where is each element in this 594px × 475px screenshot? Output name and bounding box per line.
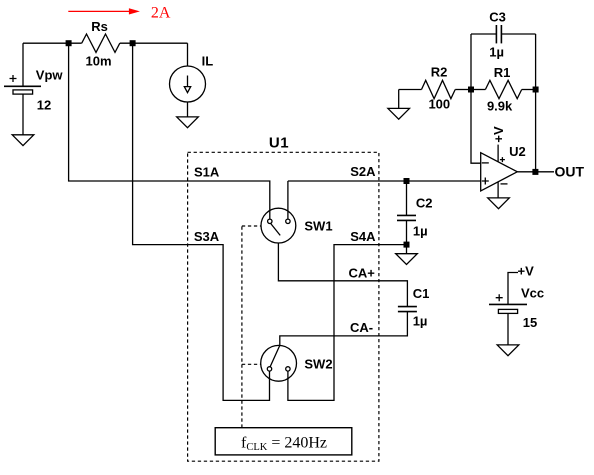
svg-text:R1: R1 bbox=[494, 65, 511, 80]
svg-text:U2: U2 bbox=[509, 144, 526, 159]
svg-text:+V: +V bbox=[491, 126, 506, 143]
svg-text:S1A: S1A bbox=[194, 165, 220, 180]
switch SW1 bbox=[261, 181, 296, 243]
svg-text:+V: +V bbox=[518, 264, 535, 279]
node S2A junction bbox=[404, 178, 410, 184]
battery Vcc bbox=[489, 273, 527, 345]
wire CA- run bbox=[280, 312, 408, 346]
resistor R2 bbox=[399, 80, 471, 108]
node junction R1 left bbox=[468, 87, 474, 93]
op-amp U2 bbox=[481, 145, 518, 198]
wire S2A run bbox=[288, 180, 481, 182]
node junction R1 right bbox=[533, 87, 539, 93]
switch SW2 bbox=[261, 345, 297, 381]
svg-text:C3: C3 bbox=[489, 10, 506, 25]
node output junction bbox=[532, 169, 538, 175]
svg-text:Vpw: Vpw bbox=[36, 67, 64, 82]
svg-text:1µ: 1µ bbox=[413, 224, 428, 239]
capacitor C3 bbox=[471, 25, 536, 43]
svg-text:Vcc: Vcc bbox=[521, 286, 544, 301]
svg-text:CA+: CA+ bbox=[349, 265, 376, 280]
wire S1A run bbox=[69, 43, 270, 219]
fCLK box bbox=[215, 428, 352, 455]
wire output bbox=[517, 171, 554, 173]
svg-text:Rs: Rs bbox=[91, 19, 108, 34]
clock dashed control lines bbox=[241, 226, 243, 428]
current arrow (red) bbox=[68, 8, 140, 14]
resistor Rs bbox=[82, 34, 120, 52]
svg-text:S2A: S2A bbox=[350, 164, 376, 179]
svg-text:IL: IL bbox=[202, 53, 214, 68]
svg-text:S4A: S4A bbox=[350, 229, 376, 244]
svg-text:100: 100 bbox=[428, 97, 450, 112]
svg-text:2A: 2A bbox=[151, 5, 171, 22]
wire S4A run bbox=[288, 245, 407, 401]
node junction right of Rs bbox=[130, 40, 136, 46]
wire CA+ run bbox=[278, 243, 407, 307]
svg-text:U1: U1 bbox=[269, 134, 289, 151]
wire feedback left vertical bbox=[471, 34, 481, 163]
svg-text:9.9k: 9.9k bbox=[487, 98, 513, 113]
svg-text:1µ: 1µ bbox=[489, 45, 504, 60]
wire feedback right vertical bbox=[535, 34, 537, 172]
wire top rail bbox=[23, 42, 82, 44]
svg-text:SW2: SW2 bbox=[304, 357, 332, 372]
wire S3A run bbox=[133, 43, 270, 400]
battery Vpw bbox=[4, 43, 41, 135]
resistor R1 bbox=[471, 80, 536, 98]
capacitor C1 bbox=[398, 307, 417, 312]
ground (R2) bbox=[388, 108, 410, 119]
svg-text:R2: R2 bbox=[431, 65, 448, 80]
ground (Vpw) bbox=[12, 135, 34, 146]
svg-text:12: 12 bbox=[37, 97, 51, 112]
svg-text:C1: C1 bbox=[413, 286, 430, 301]
svg-text:CA-: CA- bbox=[350, 320, 373, 335]
svg-text:15: 15 bbox=[523, 315, 537, 330]
svg-text:1µ: 1µ bbox=[413, 313, 428, 328]
capacitor C2 bbox=[397, 181, 416, 245]
node S4A junction bbox=[404, 242, 410, 248]
current source IL bbox=[170, 43, 206, 117]
svg-text:OUT: OUT bbox=[555, 164, 585, 180]
wire top rail right bbox=[120, 42, 188, 44]
svg-text:C2: C2 bbox=[416, 196, 433, 211]
svg-text:S3A: S3A bbox=[194, 229, 220, 244]
ground (U2) bbox=[488, 198, 510, 209]
ground (IL) bbox=[177, 117, 199, 128]
ground (C2) bbox=[396, 245, 418, 265]
svg-text:SW1: SW1 bbox=[304, 219, 332, 234]
svg-text:10m: 10m bbox=[85, 53, 111, 68]
ground (Vcc) bbox=[497, 345, 519, 356]
U1 dashed box bbox=[188, 152, 379, 461]
node junction left of Rs bbox=[66, 40, 72, 46]
